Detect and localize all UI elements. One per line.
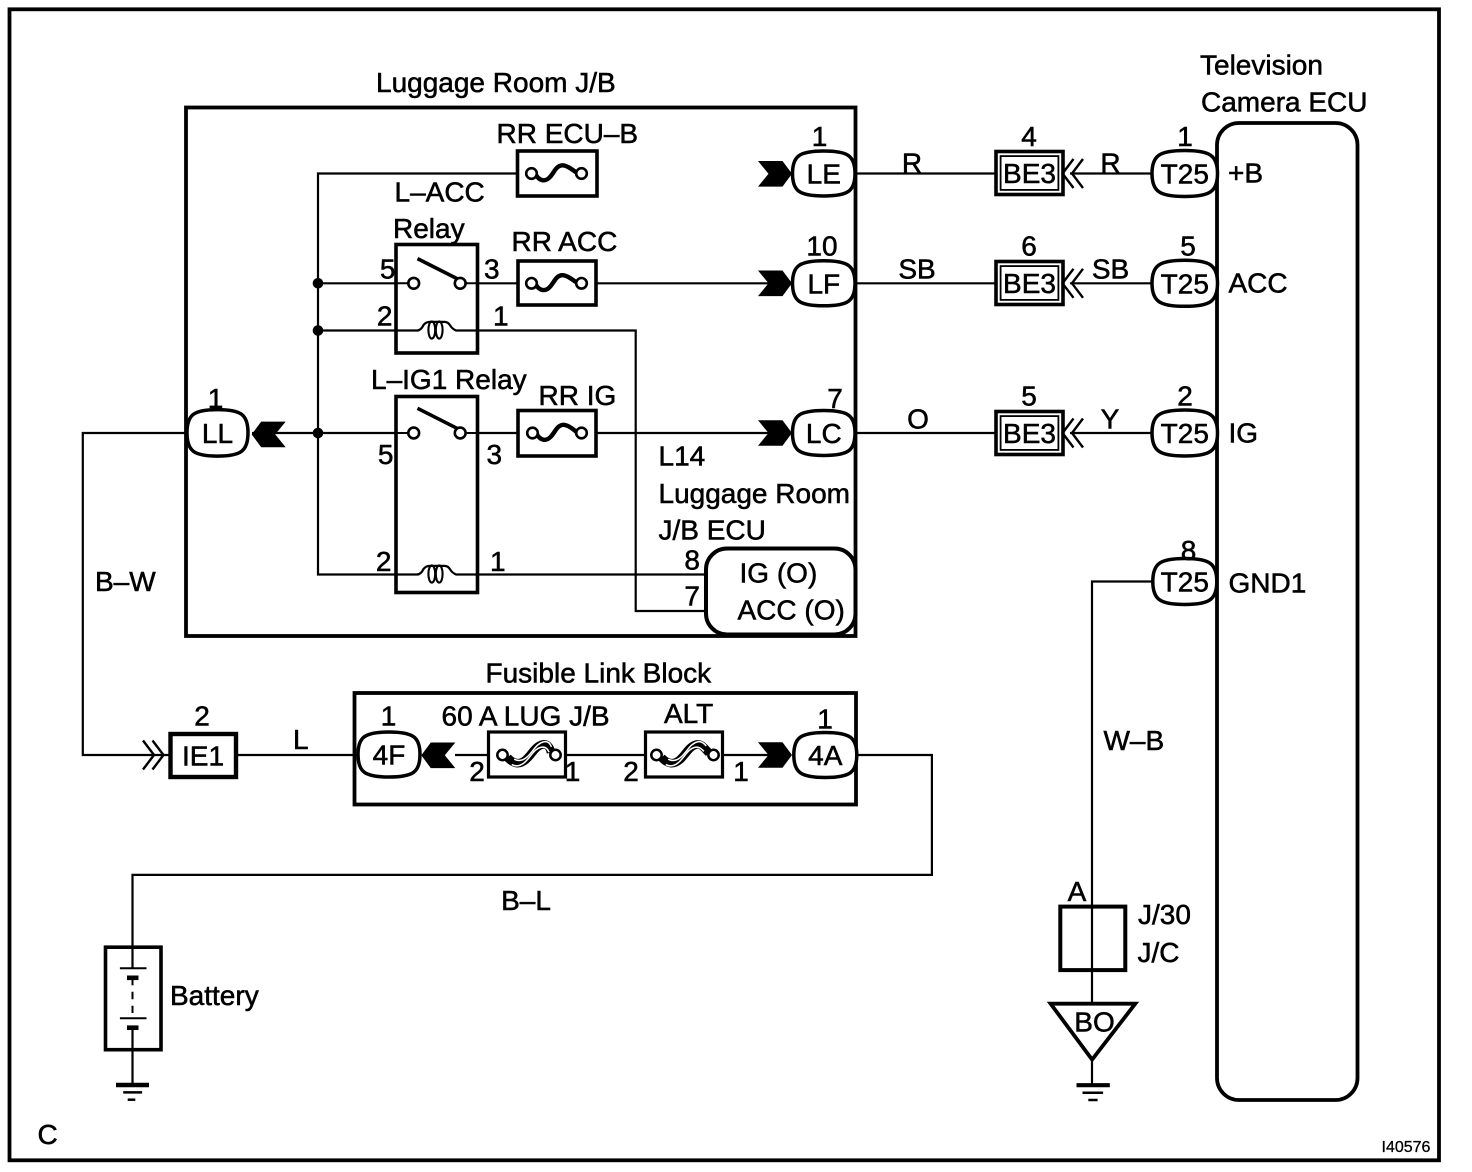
svg-text:C: C	[38, 1119, 58, 1150]
connector BE3 pin 6	[996, 262, 1063, 305]
svg-text:60 A LUG J/B: 60 A LUG J/B	[442, 701, 610, 732]
svg-text:BO: BO	[1074, 1007, 1114, 1038]
relay L-ACC	[396, 245, 478, 354]
svg-text:BE3: BE3	[1003, 158, 1056, 189]
svg-text:2: 2	[376, 546, 392, 577]
svg-text:LC: LC	[806, 418, 842, 449]
svg-text:8: 8	[684, 545, 700, 576]
svg-text:2: 2	[623, 756, 639, 787]
svg-text:L–IG1 Relay: L–IG1 Relay	[371, 364, 527, 395]
svg-text:4F: 4F	[373, 740, 406, 771]
wire LE to BE3 pin 4	[855, 172, 996, 174]
svg-text:5: 5	[380, 254, 396, 285]
male connector arrow into LL	[252, 422, 286, 448]
svg-text:BE3: BE3	[1003, 268, 1056, 299]
svg-text:IG (O): IG (O)	[740, 558, 818, 589]
svg-text:W–B: W–B	[1104, 725, 1165, 756]
svg-text:L14: L14	[659, 441, 706, 472]
connector LE (1)	[793, 151, 856, 196]
svg-text:L: L	[293, 724, 309, 755]
wire LL to junction and L-IG1 pin 5	[252, 432, 396, 434]
svg-text:ACC: ACC	[1229, 268, 1288, 299]
svg-text:Luggage Room: Luggage Room	[659, 478, 850, 509]
svg-text:A: A	[1068, 876, 1087, 907]
connector T25 pin 2	[1152, 410, 1218, 456]
svg-text:1: 1	[812, 121, 828, 152]
svg-text:ACC (O): ACC (O)	[738, 595, 845, 626]
fusible link 60 A LUG J/B	[489, 732, 566, 777]
svg-text:Camera ECU: Camera ECU	[1201, 87, 1367, 118]
ECU output block IG (O) / ACC (O)	[706, 549, 856, 635]
svg-text:LL: LL	[202, 418, 233, 449]
svg-text:B–L: B–L	[501, 885, 551, 916]
connector BE3 pin 5	[996, 412, 1063, 455]
wire B-L from 4A to battery	[133, 755, 932, 947]
svg-text:LF: LF	[807, 268, 840, 299]
connector T25 pin 1	[1152, 151, 1218, 197]
female connector mark at BE3 pin 4	[1063, 159, 1084, 188]
relay L-IG1	[396, 397, 478, 593]
connector LL (1)	[187, 410, 248, 457]
svg-text:1: 1	[381, 701, 397, 732]
wire BE3 to T25 pin 5	[1070, 282, 1152, 284]
ground symbol below battery	[116, 1085, 149, 1100]
svg-text:SB: SB	[1092, 254, 1129, 285]
female connector mark before IE1	[143, 741, 164, 770]
svg-text:5: 5	[1180, 231, 1196, 262]
svg-text:B–W: B–W	[95, 566, 156, 597]
wire battery to ground	[131, 1050, 133, 1086]
junction dot at LL row	[313, 428, 324, 439]
svg-text:1: 1	[493, 301, 509, 332]
male connector arrow into LE	[758, 161, 792, 187]
fusible link ALT	[646, 732, 723, 777]
svg-text:2: 2	[194, 701, 210, 732]
connector T25 pin 5	[1152, 260, 1218, 306]
svg-text:5: 5	[1021, 381, 1037, 412]
svg-text:2: 2	[469, 756, 485, 787]
svg-text:LE: LE	[807, 159, 841, 190]
ground symbol below BO	[1077, 1085, 1110, 1100]
svg-text:GND1: GND1	[1229, 568, 1307, 599]
Fusible Link Block	[355, 658, 857, 805]
wire BE3 to T25 pin 2	[1070, 432, 1152, 434]
svg-text:Y: Y	[1101, 404, 1120, 435]
ground point BO	[1051, 1004, 1136, 1060]
svg-text:J/30: J/30	[1138, 899, 1191, 930]
svg-text:O: O	[907, 404, 929, 435]
wire LC to BE3 pin 5	[855, 432, 996, 434]
fuse RR ACC	[518, 261, 596, 305]
svg-text:6: 6	[1021, 231, 1037, 262]
wire BE3 to T25 pin 1	[1070, 172, 1152, 174]
svg-text:I40576: I40576	[1382, 1139, 1431, 1156]
wire L-IG1 coil pin 1 to ECU IG (O) pin 8	[478, 573, 707, 575]
svg-text:Battery: Battery	[170, 980, 259, 1011]
svg-text:1: 1	[1177, 121, 1193, 152]
svg-text:RR ACC: RR ACC	[512, 226, 618, 257]
battery	[106, 947, 162, 1049]
wire LF to BE3 pin 6	[855, 282, 996, 284]
svg-text:T25: T25	[1161, 567, 1209, 598]
svg-text:+B: +B	[1228, 158, 1263, 189]
svg-text:T25: T25	[1161, 418, 1209, 449]
svg-text:RR IG: RR IG	[539, 380, 617, 411]
junction dot at relay pin 5 branch	[313, 278, 324, 289]
svg-text:RR ECU–B: RR ECU–B	[497, 118, 639, 149]
svg-text:1: 1	[565, 756, 581, 787]
svg-text:R: R	[902, 148, 922, 179]
wire LL left + B-W drop to IE1	[83, 433, 190, 755]
wire GND1 W-B down through J/30 to BO	[1092, 582, 1153, 1086]
svg-text:ALT: ALT	[664, 698, 713, 729]
svg-text:Fusible Link Block: Fusible Link Block	[486, 658, 713, 689]
svg-text:8: 8	[1181, 535, 1197, 566]
svg-text:7: 7	[827, 383, 843, 414]
svg-text:10: 10	[806, 231, 837, 262]
svg-text:4A: 4A	[808, 740, 843, 771]
wire IE1 to 4F	[236, 754, 359, 756]
connector IE1	[171, 734, 237, 777]
connector T25 pin 8	[1153, 559, 1217, 605]
junction connector J/30 J/C	[1060, 907, 1125, 971]
svg-text:L–ACC: L–ACC	[395, 177, 485, 208]
wire RR IG fuse to LC	[596, 432, 770, 434]
wire 60A LUG J/B to ALT	[566, 754, 647, 756]
male connector arrow into LF	[758, 271, 792, 297]
svg-text:R: R	[1100, 148, 1120, 179]
svg-text:Television: Television	[1200, 50, 1323, 81]
svg-text:1: 1	[733, 756, 749, 787]
fuse RR ECU-B	[518, 151, 598, 196]
svg-text:J/C: J/C	[1138, 937, 1180, 968]
svg-text:1: 1	[208, 383, 224, 414]
wire 4F to 60A LUG J/B	[455, 754, 489, 756]
svg-text:IE1: IE1	[182, 741, 224, 772]
wire L-ACC coil pin 1 to ECU ACC (O) pin 7	[478, 331, 707, 612]
svg-text:1: 1	[490, 546, 506, 577]
female connector mark at BE3 pin 5	[1063, 419, 1084, 448]
wire ALT to 4A	[723, 754, 771, 756]
junction dot at relay coil branch	[313, 325, 324, 336]
svg-text:4: 4	[1021, 121, 1037, 152]
junction block Luggage Room J/B	[186, 67, 856, 636]
ECU block Television Camera ECU	[1200, 50, 1367, 1101]
svg-text:3: 3	[484, 254, 500, 285]
svg-text:IG: IG	[1229, 418, 1259, 449]
wire to L-ACC relay pin 5	[318, 282, 396, 284]
svg-text:Luggage Room J/B: Luggage Room J/B	[376, 67, 616, 98]
svg-text:Relay: Relay	[393, 213, 465, 244]
svg-text:T25: T25	[1161, 159, 1209, 190]
wire RR ACC fuse to LF	[596, 282, 770, 284]
connector 4A (1)	[794, 733, 857, 778]
connector LC (7)	[793, 411, 856, 456]
svg-text:2: 2	[1177, 381, 1193, 412]
wire vertical bus from RR ECU-B feed down to L-IG1 coil	[318, 174, 518, 575]
svg-text:5: 5	[378, 439, 394, 470]
female connector mark at BE3 pin 6	[1063, 269, 1084, 298]
svg-text:2: 2	[377, 301, 393, 332]
connector LF (10)	[793, 261, 856, 306]
male connector arrow into 4A	[758, 742, 792, 768]
svg-text:SB: SB	[898, 254, 935, 285]
svg-text:BE3: BE3	[1003, 418, 1056, 449]
connector BE3 pin 4	[996, 152, 1063, 195]
svg-text:T25: T25	[1161, 268, 1209, 299]
wire L-IG1 pin 3 to RR IG fuse	[478, 432, 519, 434]
connector 4F (1)	[358, 732, 420, 777]
svg-text:3: 3	[487, 439, 503, 470]
male connector arrow into LC	[758, 420, 792, 446]
wire to L-ACC relay coil pin 2	[318, 329, 396, 331]
svg-text:J/B ECU: J/B ECU	[659, 515, 766, 546]
svg-text:7: 7	[684, 581, 700, 612]
male connector arrow into 4F	[421, 743, 455, 769]
wire L-ACC pin 3 to RR ACC fuse	[478, 282, 519, 284]
svg-text:1: 1	[817, 704, 833, 735]
fuse RR IG	[518, 411, 596, 457]
